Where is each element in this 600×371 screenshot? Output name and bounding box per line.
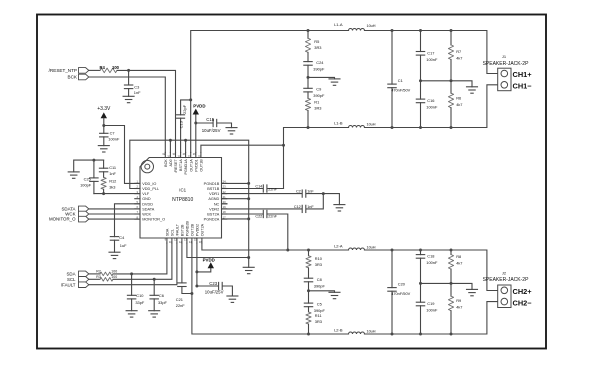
capacitor C17 <box>416 31 424 81</box>
svg-text:SPEAKER-JACK-2P: SPEAKER-JACK-2P <box>483 61 530 67</box>
node bus-PGND2B <box>247 256 250 259</box>
svg-text:C15: C15 <box>206 117 214 122</box>
svg-text:OUT1B: OUT1B <box>200 159 204 172</box>
svg-text:C1: C1 <box>398 78 403 83</box>
label L1-A <box>334 22 343 27</box>
label L2-B <box>334 328 343 333</box>
svg-text:1uF: 1uF <box>120 243 127 248</box>
resistor R6 <box>448 81 453 128</box>
value 10uH (L1-B) <box>366 122 375 126</box>
svg-text:C5: C5 <box>317 301 322 306</box>
node OUT1B-C14 <box>282 144 285 147</box>
svg-text:BCK: BCK <box>68 75 78 80</box>
svg-text:C2: C2 <box>296 190 301 194</box>
svg-text:100nF: 100nF <box>426 308 438 313</box>
svg-text:PGND1A: PGND1A <box>184 159 188 175</box>
capacitor C13 <box>177 100 191 152</box>
svg-text:1nF: 1nF <box>134 90 141 95</box>
ground (VREF) <box>68 172 79 178</box>
resistor R4 <box>100 68 117 73</box>
svg-text:L1-A: L1-A <box>334 22 343 27</box>
wire R3 to SCL pin <box>113 243 172 279</box>
label R4 <box>100 65 106 70</box>
node chain2 mid <box>307 289 310 292</box>
svg-text:20: 20 <box>223 200 226 204</box>
value 390pF (C24) <box>313 67 325 72</box>
node C10 tap <box>130 272 133 275</box>
value 22nF (C21) <box>176 303 185 308</box>
svg-text:25: 25 <box>198 154 201 158</box>
wire VREF top tie <box>74 160 104 172</box>
svg-text:C3: C3 <box>134 84 139 89</box>
svg-text:100nF: 100nF <box>426 105 438 110</box>
connector /RESET_NTP-BCK header <box>79 68 89 80</box>
svg-text:100nF: 100nF <box>108 137 120 142</box>
wire GND pin <box>115 204 141 237</box>
svg-text:DVDD: DVDD <box>142 202 153 206</box>
node C20 bottom <box>391 333 394 336</box>
capacitor C20 <box>388 250 396 334</box>
node C21-OUT2B <box>190 292 193 295</box>
net label /RESET_NTP <box>49 68 77 73</box>
svg-text:1nF: 1nF <box>109 171 116 176</box>
svg-text:1nF: 1nF <box>307 205 314 209</box>
svg-text:+3.3V: +3.3V <box>97 106 111 112</box>
svg-text:OUT2B: OUT2B <box>191 223 195 236</box>
label C20 <box>398 282 406 287</box>
svg-text:/RESET_NTP: /RESET_NTP <box>49 68 77 73</box>
net label /FAULT <box>61 282 76 287</box>
svg-text:C7: C7 <box>110 130 115 135</box>
wire PGND1B <box>222 182 249 184</box>
node R8 top <box>450 249 453 252</box>
wire R4 to /RESET pin <box>117 70 176 152</box>
svg-text:SDA: SDA <box>166 228 170 236</box>
svg-text:C11: C11 <box>109 165 116 170</box>
svg-text:100nF: 100nF <box>426 57 438 62</box>
ground (C10) <box>126 311 137 317</box>
svg-text:CH1−: CH1− <box>513 81 533 90</box>
svg-text:BST2B: BST2B <box>181 224 185 236</box>
label J1 <box>502 54 507 59</box>
net label CH1+ <box>513 70 533 79</box>
svg-text:L2-B: L2-B <box>334 328 343 333</box>
resistor R3 <box>100 278 113 282</box>
svg-text:28: 28 <box>183 152 186 156</box>
svg-text:C13: C13 <box>178 120 183 128</box>
svg-text:10uF/25V: 10uF/25V <box>205 290 224 295</box>
node PVDD2 tee <box>195 270 198 273</box>
IC pin numbers <box>137 152 227 244</box>
svg-text:PVDD: PVDD <box>193 104 205 109</box>
svg-text:VLF: VLF <box>142 192 150 196</box>
svg-text:C22: C22 <box>255 215 262 219</box>
wire AD0 stub <box>169 140 171 152</box>
label C16 <box>427 98 434 103</box>
label C13 <box>178 120 183 128</box>
label C9 <box>316 87 321 92</box>
label C11 <box>109 165 116 170</box>
svg-text:MONITOR_O: MONITOR_O <box>142 218 165 222</box>
capacitor C5 <box>304 291 312 312</box>
wire MONITOR_O <box>89 218 140 220</box>
capacitor C21 <box>178 243 192 293</box>
node R7-R6 mid <box>450 79 453 82</box>
value 470nF/50V (C1) <box>391 87 410 92</box>
svg-text:CH2+: CH2+ <box>513 287 533 296</box>
svg-text:22nF: 22nF <box>268 187 277 191</box>
svg-text:R8: R8 <box>456 254 461 259</box>
inductor L2-B <box>349 332 365 334</box>
label C22 <box>255 215 262 219</box>
svg-text:BST1B: BST1B <box>207 187 219 191</box>
svg-text:L1-B: L1-B <box>334 120 343 125</box>
net label CH1- <box>513 81 533 90</box>
node +3.3V junction <box>102 124 105 127</box>
net label MONITOR_O <box>49 217 76 222</box>
resistor R8 <box>448 250 453 283</box>
power +3.3V <box>97 106 111 125</box>
svg-text:10uH: 10uH <box>366 245 375 249</box>
resistor R5 <box>305 31 310 62</box>
svg-text:31: 31 <box>167 154 170 158</box>
svg-text:11: 11 <box>174 238 177 242</box>
svg-text:22: 22 <box>223 190 226 194</box>
value 4k7 (R7) <box>456 55 462 60</box>
svg-text:27: 27 <box>188 154 191 158</box>
wire /FAULT <box>89 243 177 285</box>
resistor R2 <box>100 272 113 276</box>
svg-text:390pF: 390pF <box>314 284 326 289</box>
svg-text:100: 100 <box>111 269 117 273</box>
label R2 <box>96 269 101 273</box>
capacitor C1 <box>388 31 396 128</box>
svg-text:C10: C10 <box>136 293 144 298</box>
svg-text:PVDD1: PVDD1 <box>194 159 198 171</box>
svg-text:VDR1: VDR1 <box>209 192 219 196</box>
svg-text:/FAULT: /FAULT <box>61 282 76 287</box>
label R3 <box>96 275 101 279</box>
node C15 tee <box>194 122 197 125</box>
resistor R10 <box>306 250 311 278</box>
svg-text:12: 12 <box>179 240 182 244</box>
svg-text:24: 24 <box>223 180 226 184</box>
label R8 <box>456 254 461 259</box>
svg-text:PGND2B: PGND2B <box>186 220 190 236</box>
value 3R3 (R1) <box>314 106 321 111</box>
svg-text:4k7: 4k7 <box>456 102 462 107</box>
net label BCK <box>68 75 78 80</box>
value 100pF (C25) <box>80 182 92 187</box>
svg-text:C6: C6 <box>159 293 164 298</box>
node C1 bottom <box>391 126 394 129</box>
capacitor C4 <box>110 237 118 253</box>
value 390pF (C9) <box>313 93 325 98</box>
ground (C15) <box>226 128 237 134</box>
svg-text:13: 13 <box>184 238 187 242</box>
value 1nF (C11) <box>109 171 116 176</box>
svg-text:100pF: 100pF <box>80 182 92 187</box>
wire PVDD2 stub <box>196 243 198 286</box>
capacitor C8 <box>304 278 312 291</box>
value 100nF (C7) <box>108 137 120 142</box>
label SPEAKER-JACK-2P (J2) <box>483 277 530 283</box>
wire ch2 mid to ground <box>421 283 473 289</box>
value 1nF (C3) <box>134 90 141 95</box>
svg-text:10uH: 10uH <box>366 24 375 28</box>
resistor R7 <box>448 31 453 81</box>
inductor L1-B <box>349 126 365 128</box>
ground (C23) <box>227 296 238 302</box>
capacitor C12 <box>222 194 324 213</box>
svg-text:C23: C23 <box>209 281 217 286</box>
svg-text:C20: C20 <box>398 282 406 287</box>
value 10uF/25V (C23) <box>205 290 224 295</box>
label C8 <box>317 277 322 282</box>
power PVDD (top) <box>193 104 206 153</box>
value 100 (R3) <box>111 275 117 279</box>
wire PGND2A <box>222 218 249 220</box>
wire BCK to IC <box>89 77 166 152</box>
node C3 tap <box>127 69 130 72</box>
svg-text:10uH: 10uH <box>366 329 375 333</box>
svg-text:R4: R4 <box>100 65 106 70</box>
node C20 top <box>391 249 394 252</box>
svg-text:PGND2A: PGND2A <box>204 218 220 222</box>
value 22nF (C14) <box>268 187 277 191</box>
ground (bus) <box>243 267 254 273</box>
label R10 <box>315 256 323 261</box>
resistor R12 <box>101 177 106 193</box>
label C18 <box>427 254 434 259</box>
svg-text:PVDD: PVDD <box>203 258 215 263</box>
value 10uF/25V (C15) <box>202 128 221 133</box>
svg-text:4k7: 4k7 <box>456 305 462 310</box>
node chain1 top <box>307 29 310 32</box>
wire VDD_PLL tie to ground bus <box>130 140 249 257</box>
label NTP8810 <box>172 197 193 203</box>
node AD0 tap <box>169 139 172 142</box>
connector J2 speaker jack <box>498 285 511 308</box>
capacitor C14 <box>222 185 284 192</box>
svg-text:BCK: BCK <box>164 159 168 167</box>
value 390pF (C5) <box>314 308 326 313</box>
op-amp U1 body (IC1 NTP8810) <box>140 158 222 239</box>
svg-text:C25: C25 <box>84 177 91 182</box>
svg-text:R11: R11 <box>315 313 322 318</box>
svg-text:R1: R1 <box>314 100 319 105</box>
capacitor C19 <box>416 283 424 334</box>
net label CH2- <box>513 298 533 307</box>
svg-text:3R3: 3R3 <box>315 319 322 324</box>
svg-text:C18: C18 <box>427 254 434 259</box>
svg-text:R3: R3 <box>96 275 101 279</box>
capacitor C24 <box>304 62 312 78</box>
ground (C2/C12) <box>334 205 345 211</box>
svg-text:SPEAKER-JACK-2P: SPEAKER-JACK-2P <box>483 277 530 283</box>
value 33pF (C6) <box>158 300 167 305</box>
svg-text:VDR2: VDR2 <box>209 207 219 211</box>
wire OUT2A rail (L2-A) <box>202 243 498 290</box>
capacitor C3 <box>124 70 132 96</box>
svg-text:/RESET: /RESET <box>174 159 178 173</box>
capacitor C6 <box>150 279 158 310</box>
svg-text:30: 30 <box>173 152 176 156</box>
svg-text:AGND: AGND <box>208 197 219 201</box>
svg-text:C14: C14 <box>255 185 262 189</box>
svg-text:AD0: AD0 <box>169 159 173 166</box>
wire OUT1A rail (L1-A) <box>191 31 498 153</box>
power PVDD (bottom) <box>197 258 215 272</box>
inductor L1-A <box>349 29 365 31</box>
node C23 tee <box>195 285 198 288</box>
svg-text:10uF/25V: 10uF/25V <box>202 128 221 133</box>
svg-text:VDD_PLL: VDD_PLL <box>142 187 159 191</box>
svg-text:VDD_IO: VDD_IO <box>142 182 156 186</box>
value 4k7 (R8) <box>456 261 462 266</box>
label L1-B <box>334 120 343 125</box>
value 3R3 (R5) <box>314 45 321 50</box>
capacitor C7 <box>100 126 108 146</box>
label C2 <box>296 190 301 194</box>
svg-text:3k3: 3k3 <box>109 185 115 190</box>
svg-text:C21: C21 <box>176 297 183 302</box>
node PGND1A tap <box>184 139 187 142</box>
svg-text:OUT1A: OUT1A <box>189 159 193 172</box>
label C6 <box>159 293 164 298</box>
svg-text:C12: C12 <box>294 205 301 209</box>
svg-text:33pF: 33pF <box>158 300 167 305</box>
svg-text:100: 100 <box>112 65 120 70</box>
svg-text:L2-A: L2-A <box>334 244 343 249</box>
label IC1 <box>179 188 186 193</box>
node R7 top <box>450 29 453 32</box>
capacitor C10 <box>127 274 135 311</box>
node C13-OUT1A <box>189 98 192 101</box>
svg-text:MONITOR_O: MONITOR_O <box>49 217 76 222</box>
svg-text:CH2−: CH2− <box>513 298 533 307</box>
node chain1 bottom <box>307 126 310 129</box>
svg-text:33pF: 33pF <box>135 300 144 305</box>
label C23 <box>209 281 217 286</box>
wire PGND1A stub <box>185 140 187 152</box>
svg-text:GND: GND <box>142 197 151 201</box>
label L2-A <box>334 244 343 249</box>
label R6 <box>456 96 461 101</box>
ground (C3) <box>123 96 134 102</box>
svg-text:26: 26 <box>193 152 196 156</box>
svg-text:SDA: SDA <box>66 272 75 277</box>
svg-text:3R3: 3R3 <box>315 262 322 267</box>
label C12 <box>294 205 301 209</box>
svg-text:BST1A: BST1A <box>179 159 183 171</box>
label SPEAKER-JACK-2P (J1) <box>483 61 530 67</box>
node R8-R9 mid <box>450 282 453 285</box>
net label CH2+ <box>513 287 533 296</box>
capacitor C22 <box>222 210 288 250</box>
capacitor C23 <box>197 282 233 296</box>
node C2-C12 <box>322 192 325 195</box>
value 100nF (C18) <box>426 260 438 265</box>
node C18 top <box>419 249 422 252</box>
wire R2 to SDA pin <box>113 243 167 274</box>
svg-text:NC: NC <box>214 202 220 206</box>
capacitor C9 <box>304 77 312 98</box>
value 4k7 (R6) <box>456 102 462 107</box>
wire OUT2B rail (L2-B) <box>192 243 498 334</box>
svg-text:NTP8810: NTP8810 <box>172 197 193 203</box>
node C11-R12 bottom <box>102 192 105 195</box>
svg-text:SCL: SCL <box>171 229 175 236</box>
value 33pF (C10) <box>135 300 144 305</box>
resistor R9 <box>448 283 453 334</box>
label C5 <box>317 301 322 306</box>
node C1 top <box>391 29 394 32</box>
value 100nF (C16) <box>426 105 438 110</box>
svg-text:16: 16 <box>199 240 202 244</box>
wire OUT1B <box>201 145 284 152</box>
value 4k7 (R9) <box>456 305 462 310</box>
value 1uF (C4) <box>120 243 127 248</box>
svg-text:21: 21 <box>223 195 226 199</box>
svg-text:WCK: WCK <box>142 213 151 217</box>
connector SDA-SCL-FAULT header <box>79 271 89 287</box>
ground (ch2 mid) <box>467 289 478 295</box>
svg-text:100nF: 100nF <box>426 260 438 265</box>
svg-text:R9: R9 <box>456 298 461 303</box>
svg-text:/FAULT: /FAULT <box>176 223 180 236</box>
wire ch1 mid to ground <box>421 81 473 87</box>
capacitor C18 <box>416 250 424 283</box>
svg-text:C16: C16 <box>427 98 434 103</box>
border frame <box>37 15 546 349</box>
wire bus to ground <box>248 258 250 268</box>
label C14 <box>255 185 262 189</box>
node chain1 mid <box>307 76 310 79</box>
net label SDA <box>66 272 75 277</box>
wire /RESET_NTP to R4 <box>89 69 100 71</box>
wire SDATA <box>89 208 140 210</box>
ground (C7) <box>98 146 109 152</box>
label C4 <box>119 235 125 240</box>
net label SCL <box>67 277 76 282</box>
label R5 <box>314 39 319 44</box>
value 10uH (L1-A) <box>366 24 375 28</box>
svg-text:22nF: 22nF <box>268 215 277 219</box>
value 3R3 (R10) <box>315 262 322 267</box>
svg-text:R10: R10 <box>315 256 323 261</box>
node C17-C16 mid <box>419 79 422 82</box>
ground (C6) <box>149 311 160 317</box>
svg-text:SDATA: SDATA <box>142 207 155 211</box>
svg-text:10uH: 10uH <box>366 122 375 126</box>
node C22-OUT2A <box>286 249 289 252</box>
svg-text:C4: C4 <box>119 235 125 240</box>
svg-text:C8: C8 <box>317 277 322 282</box>
wire +3.3V to VDD_IO <box>104 126 140 184</box>
wire PGND2B <box>187 243 249 257</box>
value 100nF (C19) <box>426 308 438 313</box>
ground (C4) <box>109 252 120 258</box>
value 10uH (L2-B) <box>366 329 375 333</box>
node C17 top <box>419 29 422 32</box>
label J2 <box>502 270 507 275</box>
wire WCK <box>89 213 140 215</box>
svg-text:14: 14 <box>189 240 192 244</box>
label R11 <box>315 313 322 318</box>
svg-text:4k7: 4k7 <box>456 55 462 60</box>
node C6 tap <box>153 278 156 281</box>
